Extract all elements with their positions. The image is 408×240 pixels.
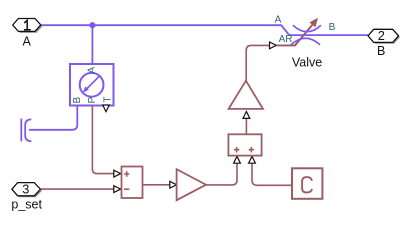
svg-text:B: B <box>72 97 83 104</box>
arrow into G1 <box>170 181 177 188</box>
arrow into G2 <box>243 112 250 119</box>
node junction on wire A <box>89 22 95 28</box>
arrow into S2 left input <box>234 156 241 163</box>
svg-text:B: B <box>329 22 336 33</box>
port 1 (connection port) <box>13 19 41 32</box>
label B of port 2 <box>377 44 385 58</box>
arrow into valve AR <box>270 42 277 49</box>
sum S1 body <box>122 167 143 199</box>
sensor pin label A <box>87 67 98 74</box>
svg-text:B: B <box>377 44 385 58</box>
constant C body <box>292 168 322 199</box>
svg-text:P: P <box>87 97 98 104</box>
gain G2 body <box>229 81 263 109</box>
label A of port 1 <box>23 34 32 48</box>
sensor port T marker <box>103 105 110 112</box>
svg-text:2: 2 <box>378 28 385 43</box>
port 2 shadow <box>369 31 400 44</box>
label p_set of port 3 <box>11 197 42 211</box>
sensor pin label B <box>72 97 83 104</box>
arrow into S1 minus input <box>114 186 121 193</box>
svg-text:A: A <box>87 67 98 74</box>
wire G1 to sum S2 <box>206 163 237 185</box>
port 3 shadow <box>13 184 42 197</box>
pressure sensor U1 body <box>70 64 114 106</box>
svg-text:AR: AR <box>279 34 293 45</box>
svg-text:T: T <box>103 97 114 103</box>
gain G1 body <box>177 169 206 200</box>
sensor needle <box>83 76 100 92</box>
wire S1 to gain G1 <box>143 184 170 186</box>
svg-text:3: 3 <box>22 182 29 197</box>
valve pin label AR <box>279 34 293 45</box>
label Valve <box>292 56 322 70</box>
wire port 3 to sum S1 <box>41 188 114 190</box>
wire C to sum S2 <box>252 163 292 185</box>
valve top arc <box>293 25 321 32</box>
svg-text:p_set: p_set <box>11 197 42 211</box>
valve pin label B <box>329 22 336 33</box>
cap IC symbol <box>21 119 31 142</box>
sensor pin label P <box>87 97 98 104</box>
wire A net (port1 to valve A to port2) <box>41 25 368 35</box>
wire G2 to valve AR <box>246 45 269 80</box>
wire S2 to gain G2 <box>245 119 247 135</box>
sum S2 body <box>228 134 261 155</box>
wire sensor P to sum S1 <box>92 106 113 174</box>
valve pin label A <box>275 15 282 26</box>
svg-text:Valve: Valve <box>292 56 322 70</box>
port 3 (connection port) <box>12 182 41 197</box>
wire sensor B to cap <box>29 106 77 130</box>
svg-text:A: A <box>275 15 282 26</box>
arrow into S1 plus input <box>114 170 121 177</box>
svg-text:A: A <box>23 34 32 48</box>
arrow into S2 right input <box>249 156 256 163</box>
sensor pin label T <box>103 97 114 103</box>
wire junction to sensor port A <box>91 25 93 64</box>
port 2 (connection port) <box>368 28 399 43</box>
port 1 shadow <box>14 20 42 33</box>
valve icon control arm <box>276 18 318 46</box>
valve bottom arc <box>291 38 320 45</box>
